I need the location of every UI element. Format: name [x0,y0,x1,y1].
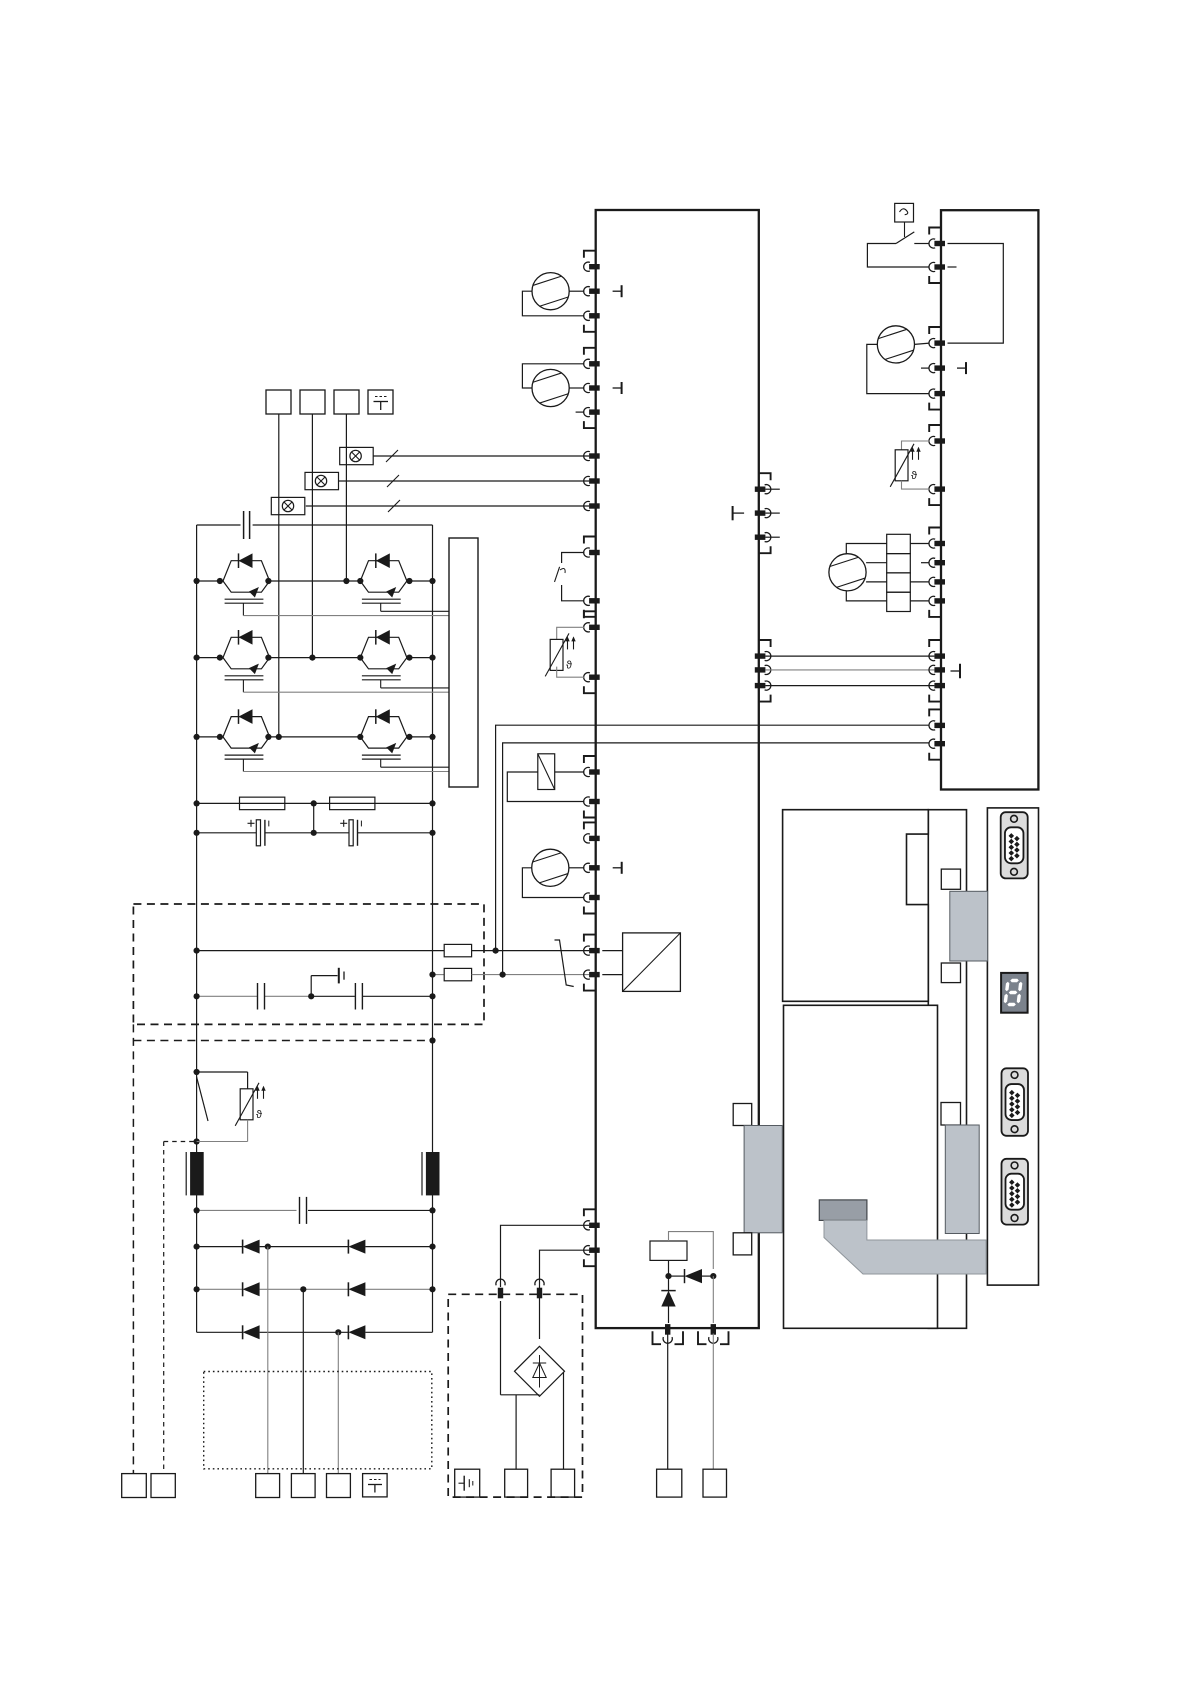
pin [934,391,945,396]
connector J3a [941,869,960,889]
wire DC+ rail (left) [196,525,198,1332]
wire DC- rail (right) [432,525,434,1332]
battery symbol box [455,1469,480,1497]
bridge rectifier V30 [515,1346,565,1396]
node [194,1244,200,1250]
terminal T [327,1474,351,1498]
capacitor C1 (electrolytic) [256,820,260,846]
control terminal block X (middle) [596,210,759,1328]
diode V13 [242,1282,244,1296]
wire motor loop [846,544,886,555]
temperature switch F4 [562,553,585,564]
resistor R2 [330,797,375,810]
wire K2 right leg [712,1276,714,1323]
pin [589,289,600,294]
wire S1 inner loop [948,244,1004,344]
pin [934,365,945,370]
relay K2 (coil) [650,1241,687,1260]
wire to chassis [310,976,312,997]
wire NTC loop [557,627,585,639]
diode V16 [347,1325,349,1339]
wire diode row 2 [197,1288,243,1290]
chassis ground [613,867,622,869]
wire supply in 2 [602,974,622,976]
connector J4 (header) [819,1200,867,1221]
IGBT V2 (right) [360,561,407,581]
bracket [698,1331,707,1344]
pin [498,1288,503,1299]
bracket [759,473,771,480]
wire K2 bottom [668,1260,670,1276]
wire stub [921,562,930,564]
pin [589,503,600,508]
node [335,1329,341,1335]
bracket [584,348,596,355]
wire IGBT midpoint [270,580,361,582]
capacitor C2 (electrolytic) [349,820,353,846]
pin [934,560,945,565]
ribbon cable 4 [824,1220,986,1274]
temperature switch F3 [197,1077,208,1121]
pin [755,510,766,515]
pin [589,264,600,269]
lamp H3 (indicator) [271,497,305,514]
pin [589,385,600,390]
chassis ground [733,512,745,514]
wire dashed shield 1 [132,1024,134,1473]
wire top rail left segment [197,524,241,526]
wire IGBT midpoint [270,736,361,738]
fan E4 [877,326,914,363]
wire to terminal [563,1372,565,1469]
wire cap row 3 [197,1209,297,1211]
crossing slash [386,450,398,462]
wire to terminal [515,1395,517,1469]
terminal (bridge out 2) [551,1469,575,1497]
pin [755,487,766,492]
pin [589,675,600,680]
D-sub connector X6 [1002,1159,1029,1225]
pin [589,598,600,603]
chassis ground [613,290,622,292]
wire bus 3 [765,685,934,687]
node [194,578,200,584]
wire cap row 2 [197,995,257,997]
bracket [759,640,771,647]
wire fan E3 out [569,867,584,869]
pin [934,723,945,728]
wire stub [765,488,779,490]
wire lamp H1 to X [373,455,589,457]
wire input R [267,1247,269,1474]
pin [589,972,600,977]
wire NTC loop [902,481,930,489]
wire stack 4 [910,600,929,602]
node [194,993,200,999]
pin [665,1324,670,1335]
bracket [584,822,596,829]
pin [589,1248,600,1253]
IGBT V5 (left) [223,717,270,737]
bracket [584,935,596,942]
wire bridge 2 [540,1250,590,1339]
pin [934,667,945,672]
wire NTC loop bottom [247,1120,249,1142]
pin [589,769,600,774]
bracket [584,537,596,544]
D-sub connector X4 [1001,812,1028,878]
wire IGBT to rail [407,657,433,659]
thermistor R5 (NTC) [895,450,908,481]
bracket [929,640,941,647]
wire stack 3 [910,581,929,583]
EMC filter enclosure (dashed) [133,904,484,1024]
chassis ground [613,387,622,389]
aux rectifier (dashed box) [448,1294,582,1497]
diode V14 [347,1282,349,1296]
pin [537,1288,542,1299]
node [194,1069,200,1075]
bracket [929,425,941,432]
pin [589,478,600,483]
gate driver board A1 [449,538,478,787]
wire fuse line 2b [472,974,589,976]
wire V22 [668,1276,670,1291]
front panel [987,808,1038,1285]
node [194,800,200,806]
bracket [929,709,941,716]
node [194,948,200,954]
inductor L1 [190,1152,204,1195]
pin [589,836,600,841]
wire dashed shield 2 [163,1142,165,1474]
pin [934,438,945,443]
wire fan E4 out [915,343,930,344]
wire stub [921,367,930,369]
ribbon cable 3 [950,891,988,961]
thermistor R3 (NTC) [240,1089,253,1120]
wire IGBT midpoint [270,657,361,659]
bracket [929,228,941,235]
pin [589,453,600,458]
capacitor C4 [354,983,356,1010]
connector J1a [733,1104,752,1126]
wire fuse line 2 [433,974,445,976]
bracket [584,251,596,258]
wire K1 loop [507,772,584,802]
terminal PE (box with earth symbol) [368,390,393,414]
terminal R [256,1474,280,1498]
wire bridge 1 [501,1225,590,1287]
capacitor C5 [299,1197,301,1224]
wire gate 1R [381,610,449,612]
wire bus 2 [765,669,934,671]
fan E1 [532,273,569,310]
wire NTC loop [557,667,585,678]
resistor R1 [240,797,285,810]
fan E3 [532,849,569,886]
wire phase U vertical [278,414,280,737]
node [194,1207,200,1213]
wire gate 2L [243,691,449,693]
pin [934,541,945,546]
wire S1 [914,243,929,245]
terminal S [291,1474,315,1498]
pin [589,865,600,870]
terminal (relay out 1) [657,1469,682,1497]
wire IGBT to rail [407,580,433,582]
wire input S [302,1289,304,1473]
power terminal block (right) [941,210,1038,789]
capacitor box stack [887,534,911,553]
wire to terminal [712,1334,714,1470]
wire fan E2 loop [522,364,584,388]
option board slot (tall) [928,810,966,1329]
wire gate 3R [381,766,449,768]
capacitor C-link (series in top rail) [243,511,245,539]
svg-text:ϑ: ϑ [256,1109,262,1121]
node [194,734,200,740]
chassis ground [951,670,961,672]
terminal (relay out 2) [703,1469,727,1497]
wire to terminal [667,1334,669,1470]
ribbon cable 1 [744,1126,782,1233]
pin [934,741,945,746]
pin [934,653,945,658]
bracket [584,1209,596,1216]
terminal PE (earth box) [363,1474,388,1497]
node phase W [343,578,349,584]
terminal (dashed lead 1) [122,1474,147,1498]
wire IGBT to rail [407,736,433,738]
terminal W (box) [334,390,359,414]
wire stub [765,512,779,514]
wire S1 stub [948,266,957,268]
pin [589,313,600,318]
wire lamp H3 to X [306,505,589,507]
wire bus 1 [765,655,934,657]
pin [711,1324,716,1335]
node [429,972,435,978]
wire link 2 [503,743,930,975]
pin [589,550,600,555]
control board (lower) [784,1005,938,1328]
crossing slash [387,475,399,487]
wire NTC loop [902,441,930,450]
terminal U (box) [266,390,291,414]
pin [934,486,945,491]
wire phase V vertical [311,414,313,658]
wire dashed link [164,1141,197,1143]
chassis ground [957,367,966,369]
wire input T [337,1332,339,1473]
fuse F2 [444,968,471,980]
switch S1 (with actuator box) [895,203,914,222]
pin [589,361,600,366]
wire fan E1 out [569,290,584,292]
wire fuse line 1b [472,950,589,952]
wire stub [765,536,779,538]
lamp H1 (indicator) [340,447,374,464]
wire gate 3L [243,771,449,773]
terminal (bridge out 1) [505,1469,528,1497]
D-sub connector X5 [1002,1068,1029,1136]
wire bridge 1b [500,1301,502,1395]
pin [934,598,945,603]
svg-text:ϑ: ϑ [566,659,572,671]
fuse F1 [444,944,471,956]
pin [755,535,766,540]
wire motor link [866,562,887,564]
chassis ground [338,968,340,984]
interlock switch S2 [555,940,574,987]
diode V15 [242,1325,244,1339]
pin [589,948,600,953]
wire fan E2 out [569,387,584,389]
connector J2a [941,1103,961,1126]
pin [934,241,945,246]
terminal (dashed lead 2) [151,1474,175,1498]
inductor L2 [426,1152,440,1195]
pin [934,264,945,269]
IGBT V6 (right) [360,717,407,737]
diode V12 [347,1240,349,1254]
wire lamp H2 to X [339,480,590,482]
relay K1 (coil) [538,754,555,790]
svg-text:ϑ: ϑ [911,470,917,482]
wire row link [313,803,315,832]
wire top rail right segment [253,524,433,526]
wire NTC loop top [197,1071,248,1073]
pin [589,1223,600,1228]
wire bridge bottom [501,1394,540,1396]
wire K2 top [669,1232,714,1269]
pin [934,579,945,584]
connector J3b [941,963,960,983]
pin [589,625,600,630]
wire gate 2R [381,687,449,689]
capacitor C3 [257,983,259,1010]
ribbon cable 2 [945,1125,979,1234]
node [665,1273,671,1279]
wire rail to IGBT [197,657,223,659]
pin [755,683,766,688]
terminal V (box) [300,390,325,414]
crossing slash [388,500,400,512]
pin [589,799,600,804]
wire rail to IGBT [197,736,223,738]
connector J1b [733,1233,752,1255]
node [429,1037,435,1043]
7-segment display [1001,973,1028,1013]
node [194,655,200,661]
wire stack 1 [910,543,929,545]
bracket [929,327,941,334]
control board (upper) [783,810,929,1002]
wire fuse line 1 [197,950,445,952]
bracket [584,756,596,763]
pin [934,340,945,345]
power supply T1 (DC/DC) [623,933,681,992]
node phase U [276,734,282,740]
diode V11 [242,1240,244,1254]
wire gate 1L [243,615,449,617]
IGBT V1 (left) [223,561,270,581]
bracket [929,528,941,535]
thermistor R4 (NTC) [550,639,563,670]
7-segment digit 8 [1003,979,1023,1006]
wire phase W vertical [345,414,347,581]
wire dashed horizontal [133,1040,432,1042]
wire fan E4 loop [867,344,930,393]
pin [755,653,766,658]
fan E2 [532,369,569,406]
IGBT V4 (right) [360,637,407,657]
wire cap row [197,832,257,834]
wire K1 [555,771,585,773]
bracket [584,611,596,618]
diode V21 [684,1269,686,1283]
node [194,830,200,836]
wire rail to IGBT [197,580,223,582]
input filter (dotted box) [204,1372,432,1469]
wire diode row 1 [197,1246,243,1248]
pin [934,683,945,688]
node [194,1286,200,1292]
wire fan E3 loop [522,868,584,898]
IGBT V3 (left) [223,637,270,657]
pin [589,895,600,900]
bracket [653,1331,662,1344]
pin [589,409,600,414]
wire stub [576,411,585,413]
wire supply in 1 [602,950,622,952]
node phase V [309,655,315,661]
lamp H2 (indicator) [305,472,339,489]
wire link 1 [496,725,930,950]
pin [755,667,766,672]
wire diode row 3 [197,1331,243,1333]
diode V22 [661,1291,675,1307]
wire S1 loop [867,244,929,268]
motor M1 (fan) [829,554,866,591]
wire resistor row [197,802,433,804]
wire fan E1 loop [522,291,584,316]
